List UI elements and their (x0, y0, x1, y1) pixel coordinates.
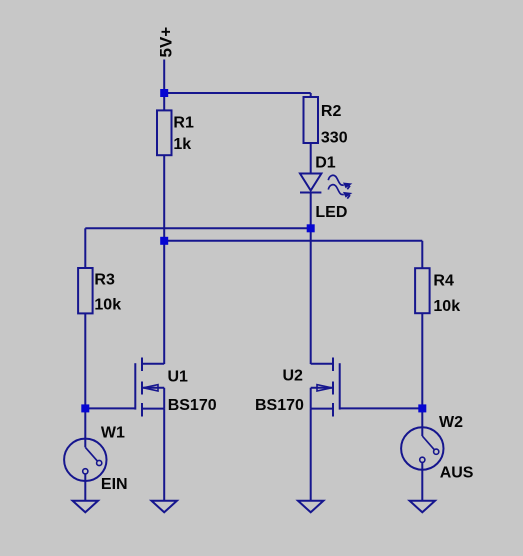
svg-text:LED: LED (315, 204, 347, 221)
wire W1 bottom to ground (84, 474, 86, 501)
resistor R1 (157, 110, 172, 155)
svg-text:W2: W2 (439, 414, 463, 431)
wire lower bus drop to R4 (421, 241, 423, 268)
transistor U1 gate bar (134, 363, 136, 409)
wire lower bus U1 drain node to R4 (164, 240, 422, 242)
wire upper bus R3 to LED cathode node (85, 227, 310, 229)
svg-text:10k: 10k (94, 297, 121, 314)
wire U1 gate to node (85, 407, 135, 409)
transistor U2 gate bar (339, 363, 341, 409)
power 5V+ pin stub (163, 60, 165, 94)
ground under W1 (73, 501, 98, 513)
LED D1 triangle (300, 174, 321, 191)
transistor U2 source stub (311, 408, 333, 410)
transistor U1 source stub (142, 408, 164, 410)
transistor U1 channel segments (141, 358, 143, 417)
LED D1 light arrow 1 (328, 175, 344, 185)
transistor U2 bulk stub (311, 387, 333, 389)
switch W2 circle (401, 427, 443, 469)
junction U1 gate node (81, 404, 89, 412)
wire R3 bottom to W1 (84, 313, 86, 447)
svg-text:R4: R4 (433, 273, 454, 290)
wire upper bus drop to R3 (84, 228, 86, 268)
LED D1 cathode bar (300, 192, 321, 194)
wire R1 top stub (163, 93, 165, 111)
wire U2 gate to node (340, 407, 423, 409)
transistor U1 drain stub (142, 363, 164, 365)
svg-text:U1: U1 (168, 369, 189, 386)
junction 5V+ rail (160, 89, 168, 97)
switch W2 moving contact (434, 449, 439, 454)
svg-text:R3: R3 (94, 272, 115, 289)
ground under U1 source (152, 501, 177, 513)
transistor U1 bulk-source tie (163, 388, 165, 409)
switch W2 fixed contact (420, 457, 425, 462)
wire R2 to LED anode (310, 143, 312, 174)
wire W2 bottom to ground (421, 462, 423, 501)
wire U2 source to ground (310, 409, 312, 501)
switch W1 fixed contact (83, 469, 88, 474)
svg-text:D1: D1 (315, 155, 336, 172)
svg-text:10k: 10k (433, 298, 460, 315)
resistor R4 (415, 268, 430, 313)
wire top rail 5V+ to R2 (164, 92, 311, 94)
wire U1 source to ground (163, 409, 165, 501)
wire R4 bottom to W2 (421, 313, 423, 436)
svg-text:W1: W1 (101, 424, 125, 441)
wire R2 top stub (310, 93, 312, 97)
svg-text:5V+: 5V+ (157, 27, 176, 58)
resistor R2 (304, 97, 319, 143)
transistor U2 bulk arrow (317, 385, 332, 391)
svg-text:330: 330 (321, 129, 348, 146)
svg-text:BS170: BS170 (255, 397, 304, 414)
junction U1 drain node (160, 237, 168, 245)
switch W2 lever (422, 436, 434, 450)
wire R1 bottom to U1 drain (163, 155, 165, 364)
switch W1 lever (85, 447, 97, 461)
svg-text:1k: 1k (173, 136, 191, 153)
svg-text:BS170: BS170 (168, 397, 217, 414)
transistor U1 bulk stub (142, 387, 164, 389)
switch W1 moving contact (97, 460, 102, 465)
resistor R3 (78, 268, 93, 313)
wire LED cathode to U2 drain (310, 193, 312, 364)
junction U2 gate node (418, 404, 426, 412)
transistor U2 bulk-source tie (310, 388, 312, 409)
svg-text:AUS: AUS (440, 465, 474, 482)
transistor U1 bulk arrow (144, 385, 159, 391)
svg-text:R1: R1 (173, 115, 194, 132)
LED D1 light arrow 2 (328, 185, 344, 195)
svg-text:R2: R2 (321, 103, 342, 120)
ground under W2 (410, 501, 435, 513)
transistor U2 drain stub (311, 363, 333, 365)
junction U2 drain node (307, 224, 315, 232)
svg-text:U2: U2 (283, 368, 304, 385)
svg-text:EIN: EIN (101, 476, 128, 493)
ground under U2 source (298, 501, 323, 513)
switch W1 circle (64, 439, 106, 481)
transistor U2 channel segments (332, 358, 334, 417)
